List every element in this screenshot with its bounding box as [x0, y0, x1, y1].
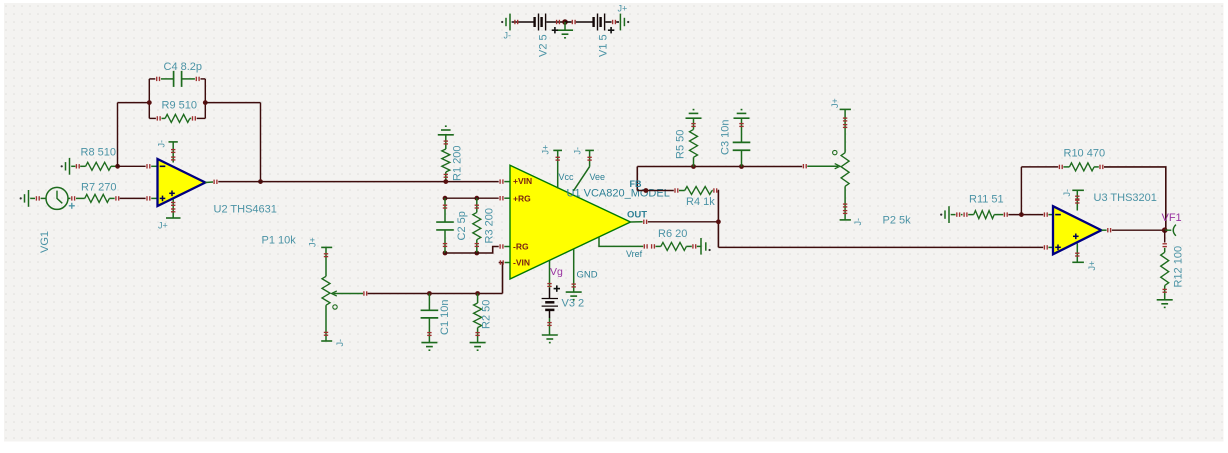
svg-text:VF1: VF1: [1162, 212, 1182, 224]
svg-text:R4 1k: R4 1k: [686, 196, 715, 208]
svg-text:R1 200: R1 200: [452, 146, 464, 181]
svg-text:J+: J+: [158, 221, 168, 231]
svg-text:GND: GND: [577, 270, 598, 281]
svg-text:C4 8.2p: C4 8.2p: [164, 61, 203, 73]
svg-text:J+: J+: [1087, 261, 1097, 271]
svg-text:J+: J+: [830, 98, 840, 108]
svg-text:R2 50: R2 50: [481, 300, 493, 329]
svg-text:U1 VCA820_MODEL: U1 VCA820_MODEL: [567, 188, 670, 200]
svg-text:R7 270: R7 270: [81, 182, 116, 194]
svg-text:R9 510: R9 510: [162, 100, 197, 112]
svg-text:R11 51: R11 51: [969, 193, 1004, 205]
svg-text:Vg: Vg: [550, 266, 563, 278]
svg-text:Vcc: Vcc: [559, 172, 575, 182]
svg-text:-VIN: -VIN: [513, 258, 530, 268]
svg-text:J+: J+: [308, 237, 318, 247]
svg-text:J-: J-: [853, 218, 863, 226]
svg-text:+RG: +RG: [513, 193, 531, 203]
svg-text:R8 510: R8 510: [81, 147, 116, 159]
svg-text:-RG: -RG: [513, 241, 529, 251]
svg-text:U3 THS3201: U3 THS3201: [1094, 192, 1157, 204]
svg-text:+VIN: +VIN: [513, 176, 532, 186]
svg-text:C3 10n: C3 10n: [720, 120, 732, 155]
svg-text:R6 20: R6 20: [658, 228, 687, 240]
svg-text:J-: J-: [157, 140, 167, 148]
svg-text:C2 5p: C2 5p: [456, 211, 468, 240]
svg-text:R12 100: R12 100: [1173, 246, 1185, 288]
svg-text:J+: J+: [618, 4, 628, 14]
svg-text:V1 5: V1 5: [598, 34, 610, 57]
svg-text:OUT: OUT: [627, 210, 647, 221]
svg-text:P1 10k: P1 10k: [262, 235, 297, 247]
svg-text:R5 50: R5 50: [675, 130, 687, 159]
svg-text:FB: FB: [630, 179, 642, 189]
svg-text:J-: J-: [1062, 189, 1072, 197]
svg-text:J+: J+: [541, 145, 551, 155]
svg-text:R10 470: R10 470: [1064, 148, 1106, 160]
svg-text:VG1: VG1: [39, 231, 51, 253]
svg-text:U2 THS4631: U2 THS4631: [214, 204, 277, 216]
svg-text:J-: J-: [573, 147, 583, 155]
svg-text:R3 200: R3 200: [484, 208, 496, 243]
svg-text:P2 5k: P2 5k: [883, 215, 912, 227]
svg-text:Vref: Vref: [626, 249, 643, 259]
svg-text:Vee: Vee: [590, 172, 606, 182]
svg-text:V2 5: V2 5: [538, 34, 550, 57]
svg-text:J-: J-: [335, 339, 345, 347]
svg-text:C1 10n: C1 10n: [439, 300, 451, 335]
svg-text:J-: J-: [504, 31, 512, 41]
